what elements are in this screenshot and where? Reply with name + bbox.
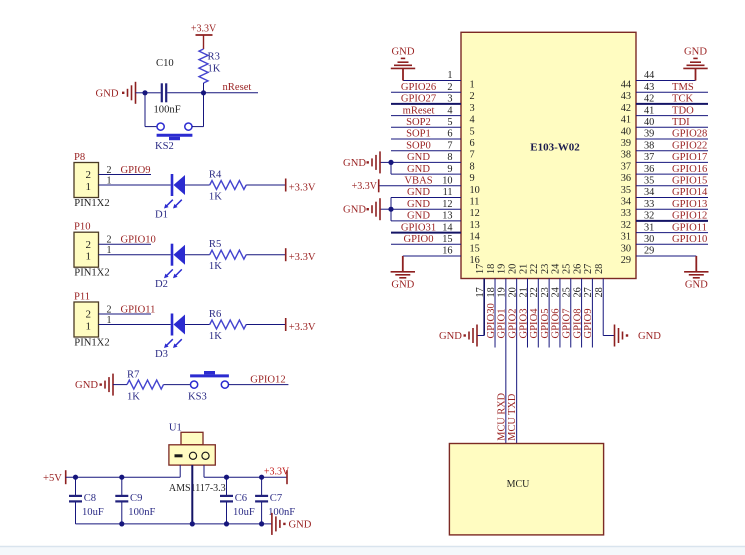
svg-text:GND: GND: [638, 331, 661, 342]
P8 pin 2 wire: [99, 174, 152, 176]
svg-text:2: 2: [447, 82, 452, 93]
svg-text:1: 1: [447, 70, 452, 81]
module E103-W02 body: [461, 32, 636, 278]
svg-text:GPIO28: GPIO28: [672, 129, 707, 140]
svg-text:GPIO14: GPIO14: [672, 187, 708, 198]
svg-text:TMS: TMS: [672, 82, 694, 93]
module pin 44 (GND net): [636, 80, 696, 82]
svg-text:17: 17: [475, 264, 486, 274]
module pin 10 (VBAS): [379, 185, 461, 187]
module bottom pin 17 (GND net): [483, 279, 485, 336]
svg-text:GPIO9: GPIO9: [583, 308, 594, 338]
wire GND to R7: [113, 384, 127, 386]
svg-text:GND: GND: [289, 519, 312, 530]
svg-text:+3.3V: +3.3V: [289, 182, 316, 193]
svg-text:GND: GND: [392, 47, 415, 58]
svg-text:VBAS: VBAS: [404, 176, 432, 187]
svg-text:KS2: KS2: [155, 141, 174, 152]
svg-text:GPIO4: GPIO4: [529, 308, 540, 339]
svg-text:16: 16: [442, 246, 452, 257]
svg-text:1: 1: [85, 251, 91, 263]
wire D1 to R4: [185, 184, 210, 186]
svg-text:GPIO31: GPIO31: [401, 222, 436, 233]
svg-text:GND: GND: [685, 280, 708, 291]
svg-text:GPIO8: GPIO8: [572, 308, 583, 338]
svg-text:100nF: 100nF: [128, 507, 155, 518]
svg-text:29: 29: [621, 255, 631, 266]
svg-text:26: 26: [572, 264, 583, 274]
svg-text:40: 40: [621, 126, 631, 137]
svg-text:6: 6: [447, 129, 452, 140]
module bottom pin 28 (GND net): [602, 279, 604, 336]
svg-text:19: 19: [497, 287, 508, 297]
module pin 13 (GND): [391, 220, 461, 222]
svg-text:23: 23: [540, 287, 551, 297]
svg-text:3: 3: [470, 103, 475, 114]
module pin 33 (GPIO13): [636, 208, 708, 210]
svg-text:9: 9: [470, 173, 475, 184]
module pin 37 (GPIO17): [636, 161, 708, 163]
module bottom pin 27 (GPIO9): [591, 279, 593, 348]
wire KS2 to node B: [192, 126, 204, 128]
svg-text:24: 24: [551, 287, 562, 297]
top rail right: [204, 476, 287, 478]
svg-text:GND: GND: [407, 187, 430, 198]
module bottom pin 19 (GPIO1): [505, 279, 507, 444]
svg-text:1K: 1K: [127, 392, 140, 403]
svg-text:27: 27: [583, 287, 594, 297]
svg-text:+3.3V: +3.3V: [289, 322, 316, 333]
svg-text:25: 25: [562, 264, 573, 274]
svg-text:GPIO30: GPIO30: [486, 303, 497, 338]
module pin 1 (GND net): [403, 80, 461, 82]
module bottom pin 24 (GPIO6): [559, 279, 561, 348]
resistor R7: [127, 380, 164, 389]
svg-text:MCU: MCU: [507, 479, 531, 490]
svg-text:17: 17: [475, 287, 486, 297]
svg-text:29: 29: [644, 246, 654, 257]
svg-text:AMS1117-3.3: AMS1117-3.3: [169, 483, 226, 494]
wire R3 to node B: [203, 83, 205, 93]
wire nReset: [204, 92, 259, 94]
P11 pin 2 wire: [99, 313, 152, 315]
svg-text:24: 24: [551, 264, 562, 274]
module pin 39 (GPIO28): [636, 138, 708, 140]
svg-text:+3.3V: +3.3V: [264, 467, 290, 478]
svg-text:39: 39: [621, 138, 631, 149]
svg-text:+5V: +5V: [43, 473, 62, 484]
svg-text:R3: R3: [208, 52, 220, 63]
svg-text:35: 35: [644, 176, 654, 187]
top rail left: [66, 476, 181, 478]
svg-text:GND: GND: [343, 158, 366, 169]
module pin 40 (TDI): [636, 126, 708, 128]
junction U1 pin bottom: [190, 521, 195, 526]
svg-text:GND: GND: [407, 211, 430, 222]
svg-text:GPIO16: GPIO16: [672, 164, 707, 175]
svg-text:22: 22: [529, 287, 540, 297]
svg-text:18: 18: [486, 287, 497, 297]
P8 pin 1 wire: [99, 184, 171, 186]
power +3.3V row P10: [285, 248, 287, 261]
svg-text:D3: D3: [155, 349, 168, 360]
svg-text:R7: R7: [127, 370, 139, 381]
svg-text:11: 11: [470, 197, 480, 208]
module pin 30 (GPIO10): [636, 243, 708, 245]
svg-text:GPIO22: GPIO22: [672, 140, 707, 151]
svg-text:4: 4: [447, 105, 452, 116]
svg-text:12: 12: [470, 208, 480, 219]
svg-text:21: 21: [518, 264, 529, 274]
svg-text:R6: R6: [209, 309, 221, 320]
LED D2: [171, 244, 174, 266]
svg-text:1: 1: [107, 315, 112, 326]
svg-text:P8: P8: [74, 152, 85, 163]
svg-text:1K: 1K: [208, 64, 221, 75]
module pin 42 (TCK): [636, 103, 708, 105]
svg-text:1: 1: [85, 320, 91, 332]
U1 right pin wire: [203, 465, 205, 477]
wire node A down to KS2: [144, 93, 146, 127]
svg-text:21: 21: [518, 287, 529, 297]
svg-text:37: 37: [644, 152, 654, 163]
svg-text:TDO: TDO: [672, 105, 694, 116]
LED D3: [171, 314, 174, 336]
junction C8 top: [73, 475, 78, 480]
module pin 7 (SOP0): [391, 150, 461, 152]
svg-text:GPIO3: GPIO3: [518, 308, 529, 338]
svg-text:35: 35: [621, 185, 631, 196]
svg-text:6: 6: [470, 138, 475, 149]
MCU box: [449, 444, 603, 535]
svg-text:D2: D2: [155, 279, 168, 290]
module bottom pin 20 (GPIO2): [516, 279, 518, 444]
svg-text:C9: C9: [130, 493, 142, 504]
svg-text:41: 41: [644, 105, 654, 116]
svg-text:GPIO10: GPIO10: [121, 235, 156, 246]
svg-text:GND: GND: [684, 47, 707, 58]
svg-text:8: 8: [447, 152, 452, 163]
svg-text:12: 12: [442, 199, 452, 210]
svg-text:7: 7: [470, 150, 475, 161]
svg-text:MCU RXD: MCU RXD: [496, 392, 507, 440]
svg-text:1: 1: [85, 181, 91, 193]
svg-text:10uF: 10uF: [233, 507, 255, 518]
bottom rail: [76, 523, 272, 525]
svg-text:14: 14: [470, 232, 480, 243]
capacitor C6: [226, 477, 228, 495]
svg-text:GPIO2: GPIO2: [507, 308, 518, 338]
svg-text:31: 31: [621, 232, 631, 243]
svg-text:15: 15: [442, 234, 452, 245]
svg-text:41: 41: [621, 115, 631, 126]
svg-text:44: 44: [621, 80, 631, 91]
svg-text:+3.3V: +3.3V: [289, 252, 316, 263]
module pin 31 (GPIO11): [636, 232, 708, 234]
svg-text:GPIO7: GPIO7: [562, 308, 573, 338]
svg-text:42: 42: [644, 94, 654, 105]
svg-text:4: 4: [470, 115, 475, 126]
svg-text:PIN1X2: PIN1X2: [74, 337, 109, 348]
svg-text:GPIO0: GPIO0: [403, 234, 433, 245]
wire D3 to R6: [185, 324, 210, 326]
svg-text:2: 2: [470, 91, 475, 102]
svg-text:20: 20: [507, 264, 518, 274]
svg-text:1: 1: [107, 175, 112, 186]
svg-text:13: 13: [470, 220, 480, 231]
svg-text:U1: U1: [169, 423, 182, 434]
svg-text:32: 32: [644, 211, 654, 222]
svg-text:37: 37: [621, 161, 631, 172]
svg-text:GPIO11: GPIO11: [672, 222, 707, 233]
svg-text:GPIO6: GPIO6: [551, 308, 562, 338]
svg-text:GPIO9: GPIO9: [121, 165, 151, 176]
svg-text:GND: GND: [407, 164, 430, 175]
capacitor C9: [121, 477, 123, 495]
svg-text:34: 34: [644, 187, 654, 198]
svg-text:PIN1X2: PIN1X2: [74, 198, 109, 209]
svg-text:26: 26: [572, 287, 583, 297]
switch KS2: [157, 123, 164, 130]
svg-text:1K: 1K: [209, 192, 222, 203]
P10 pin 1 wire: [99, 254, 171, 256]
svg-text:31: 31: [644, 222, 654, 233]
svg-text:GND: GND: [439, 331, 462, 342]
svg-text:PIN1X2: PIN1X2: [74, 268, 109, 279]
resistor R4: [210, 181, 247, 190]
module pin 34 (GPIO14): [636, 197, 708, 199]
svg-text:42: 42: [621, 103, 631, 114]
svg-text:28: 28: [594, 264, 605, 274]
svg-text:19: 19: [497, 264, 508, 274]
svg-text:23: 23: [540, 264, 551, 274]
svg-text:1K: 1K: [209, 331, 222, 342]
module pin 4 (mReset): [391, 115, 461, 117]
module pin 12 (GND): [391, 208, 461, 210]
svg-text:3: 3: [447, 94, 452, 105]
svg-text:C10: C10: [156, 58, 174, 69]
svg-text:5: 5: [470, 126, 475, 137]
svg-text:E103-W02: E103-W02: [530, 141, 580, 153]
module pin 16 (GND net): [403, 255, 461, 257]
module bottom pin 21 (GPIO3): [526, 279, 528, 348]
svg-text:20: 20: [507, 287, 518, 297]
junction C6 bottom: [224, 521, 229, 526]
svg-text:1: 1: [107, 245, 112, 256]
svg-text:30: 30: [644, 234, 654, 245]
module pin 9 (GND): [391, 173, 461, 175]
svg-text:GPIO10: GPIO10: [672, 234, 707, 245]
junction C9 top: [119, 475, 124, 480]
svg-text:C7: C7: [270, 493, 282, 504]
junction C6 top: [224, 475, 229, 480]
module pin 38 (GPIO22): [636, 150, 708, 152]
svg-text:GPIO26: GPIO26: [401, 82, 436, 93]
wire node A to C10 left plate: [145, 92, 161, 94]
svg-text:1K: 1K: [209, 261, 222, 272]
module bottom pin 26 (GPIO8): [581, 279, 583, 348]
svg-text:30: 30: [621, 243, 631, 254]
svg-text:100nF: 100nF: [154, 105, 181, 116]
resistor R3: [199, 49, 208, 83]
svg-text:mReset: mReset: [403, 105, 435, 116]
svg-text:36: 36: [644, 164, 654, 175]
svg-text:14: 14: [442, 222, 452, 233]
svg-text:TCK: TCK: [672, 94, 694, 105]
svg-text:11: 11: [443, 187, 453, 198]
ground bottom right: [695, 256, 697, 272]
svg-text:2: 2: [85, 169, 91, 181]
svg-text:2: 2: [107, 304, 112, 315]
module pin 11 (GND): [391, 197, 461, 199]
svg-text:8: 8: [470, 161, 475, 172]
svg-text:GND: GND: [343, 205, 366, 216]
switch KS3: [191, 381, 198, 388]
module pin 36 (GPIO16): [636, 173, 708, 175]
svg-text:GPIO17: GPIO17: [672, 152, 707, 163]
svg-text:44: 44: [644, 70, 654, 81]
wire R7 to KS3: [164, 384, 191, 386]
wire R5 to +3.3V: [246, 254, 286, 256]
module bottom pin 25 (GPIO7): [570, 279, 572, 348]
svg-text:TDI: TDI: [672, 117, 690, 128]
svg-text:GPIO13: GPIO13: [672, 199, 707, 210]
svg-text:1: 1: [470, 80, 475, 91]
svg-text:MCU TXD: MCU TXD: [507, 393, 518, 441]
svg-text:15: 15: [470, 243, 480, 254]
svg-text:33: 33: [621, 208, 631, 219]
svg-text:18: 18: [486, 264, 497, 274]
module pin 3 (GPIO27): [391, 103, 461, 105]
module pin 6 (SOP1): [391, 138, 461, 140]
node B junction: [201, 90, 206, 95]
svg-text:GND: GND: [407, 152, 430, 163]
module pin 8 (GND): [391, 161, 461, 163]
svg-text:5: 5: [447, 117, 452, 128]
svg-text:2: 2: [85, 239, 91, 251]
svg-text:GND: GND: [407, 199, 430, 210]
capacitor C7: [261, 477, 263, 495]
module pin 14 (GPIO31): [391, 232, 461, 234]
svg-text:33: 33: [644, 199, 654, 210]
svg-text:SOP1: SOP1: [406, 129, 431, 140]
svg-text:GND: GND: [75, 380, 98, 391]
svg-text:28: 28: [594, 287, 605, 297]
module pin 32 (GPIO12): [636, 220, 708, 222]
U1 middle pin wire: [191, 465, 193, 524]
LED D1: [171, 174, 174, 196]
svg-text:38: 38: [644, 140, 654, 151]
svg-text:P11: P11: [74, 292, 90, 303]
svg-text:39: 39: [644, 129, 654, 140]
svg-text:2: 2: [107, 235, 112, 246]
svg-text:36: 36: [621, 173, 631, 184]
svg-text:2: 2: [107, 165, 112, 176]
module pin 43 (TMS): [636, 91, 708, 93]
P10 pin 2 wire: [99, 243, 152, 245]
svg-text:40: 40: [644, 117, 654, 128]
wire pin 17 to ground: [477, 335, 484, 337]
junction C9 bottom: [119, 521, 124, 526]
svg-text:P10: P10: [74, 222, 91, 233]
svg-text:C6: C6: [235, 493, 247, 504]
resistor R6: [210, 320, 247, 329]
svg-text:25: 25: [562, 287, 573, 297]
svg-text:GPIO12: GPIO12: [672, 211, 707, 222]
node A junction: [142, 90, 147, 95]
svg-text:13: 13: [442, 211, 452, 222]
svg-text:32: 32: [621, 220, 631, 231]
svg-text:KS3: KS3: [188, 392, 207, 403]
svg-text:R4: R4: [209, 170, 222, 181]
wire D2 to R5: [185, 254, 210, 256]
module pin 35 (GPIO15): [636, 185, 708, 187]
module pin 5 (SOP2): [391, 126, 461, 128]
svg-text:C8: C8: [84, 493, 96, 504]
svg-text:GPIO15: GPIO15: [672, 176, 707, 187]
svg-text:22: 22: [529, 264, 540, 274]
svg-text:10: 10: [442, 176, 452, 187]
svg-text:GND: GND: [96, 88, 119, 99]
svg-text:SOP0: SOP0: [406, 140, 431, 151]
module bottom pin 23 (GPIO5): [548, 279, 550, 348]
resistor R5: [210, 250, 247, 259]
module pin 29 (GND net): [636, 255, 696, 257]
svg-text:27: 27: [583, 264, 594, 274]
svg-text:7: 7: [447, 140, 452, 151]
U1 left pin wire: [179, 465, 181, 477]
svg-text:10uF: 10uF: [82, 507, 104, 518]
ground bottom left: [402, 256, 404, 272]
power +3.3V row P11: [285, 318, 287, 331]
window bottom strip: [0, 547, 745, 555]
svg-text:R5: R5: [209, 239, 221, 250]
svg-text:GPIO1: GPIO1: [497, 308, 508, 338]
svg-text:10: 10: [470, 185, 480, 196]
svg-text:SOP2: SOP2: [406, 117, 431, 128]
svg-text:GPIO27: GPIO27: [401, 94, 436, 105]
wire C10 right plate to node B: [167, 92, 203, 94]
svg-text:GND: GND: [391, 280, 414, 291]
gnd bracket pins 8-9: [390, 162, 392, 174]
capacitor C10: [161, 83, 163, 102]
svg-text:43: 43: [621, 91, 631, 102]
junction C7 top: [259, 475, 264, 480]
wire KS3 to GPIO12: [229, 384, 289, 386]
wire pin 28 to ground: [603, 335, 614, 337]
power +3.3V row P8: [285, 179, 287, 192]
module bottom pin 18 (GPIO30): [494, 279, 496, 348]
module pin 15 (GPIO0): [391, 243, 461, 245]
wire GND to node A: [136, 92, 146, 94]
svg-text:D1: D1: [155, 210, 168, 221]
wire R6 to +3.3V: [246, 324, 286, 326]
svg-text:nReset: nReset: [223, 82, 252, 93]
svg-text:+3.3V: +3.3V: [352, 181, 378, 192]
wire R4 to +3.3V: [246, 184, 286, 186]
P11 pin 1 wire: [99, 324, 171, 326]
junction C7 bottom: [259, 521, 264, 526]
gnd bracket pins 11-13: [390, 198, 392, 221]
svg-text:34: 34: [621, 197, 631, 208]
svg-text:+3.3V: +3.3V: [191, 24, 217, 35]
module pin 2 (GPIO26): [391, 91, 461, 93]
module pin 41 (TDO): [636, 115, 708, 117]
svg-text:GPIO5: GPIO5: [540, 308, 551, 338]
svg-text:2: 2: [85, 309, 91, 321]
svg-text:GPIO11: GPIO11: [121, 304, 156, 315]
module bottom pin 22 (GPIO4): [537, 279, 539, 348]
